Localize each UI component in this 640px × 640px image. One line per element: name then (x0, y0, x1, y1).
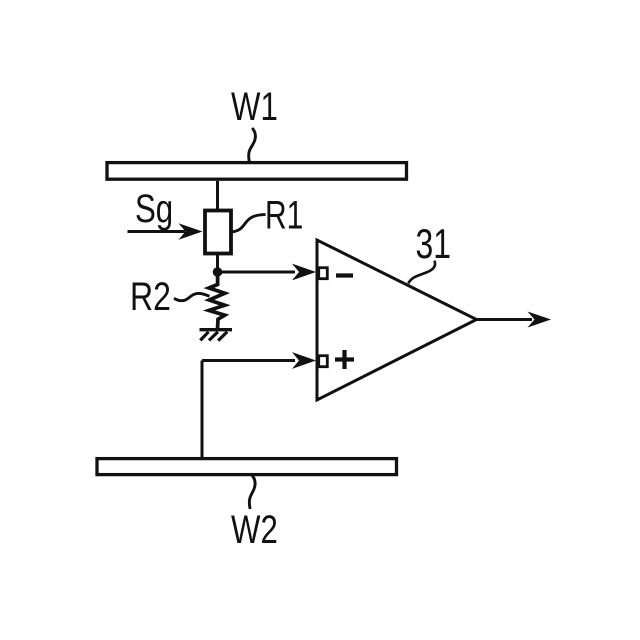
electrode W2 (bottom plate) (97, 459, 397, 475)
minus sign (336, 273, 353, 277)
arrowhead at inverting input (292, 264, 316, 281)
leader squiggle from W2 plate to label (249, 476, 255, 510)
node (junction dot) (213, 267, 223, 277)
label W2 (231, 507, 278, 552)
Sg input wire (128, 230, 186, 233)
svg-text:31: 31 (416, 220, 452, 267)
svg-text:Sg: Sg (135, 186, 173, 231)
svg-text:R2: R2 (130, 274, 171, 319)
label R1 (265, 193, 303, 237)
svg-text:R1: R1 (265, 193, 303, 237)
plus sign (335, 350, 354, 369)
arrowhead at non-inverting input (292, 352, 316, 369)
wire from W2 plate up (vertical) (201, 361, 204, 459)
label R2 (130, 274, 171, 319)
leader squiggle from R2 to zigzag (174, 293, 210, 300)
op-amp U (triangle) (317, 240, 477, 400)
resistor R1 (box) (205, 211, 231, 254)
label Sg (135, 186, 173, 231)
output wire (477, 318, 533, 321)
electrode W1 (top plate) (107, 163, 407, 180)
pin square inverting input (319, 268, 328, 279)
ground (200, 330, 233, 341)
wire to non-inverting input (horizontal) (202, 359, 295, 362)
wire from W1 plate down to R1 (216, 181, 219, 210)
wire from node to inverting input (218, 271, 296, 274)
wire from R1 down to node (216, 253, 219, 272)
leader squiggle from W1 to top electrode (249, 128, 256, 162)
pin square non-inverting input (319, 356, 328, 367)
label W1 (231, 84, 278, 129)
leader squiggle from R1 to box (232, 215, 266, 232)
Sg arrowhead (179, 223, 203, 239)
svg-text:W1: W1 (231, 84, 278, 129)
svg-text:W2: W2 (231, 507, 278, 552)
output arrowhead (528, 312, 552, 328)
label 31 (416, 220, 452, 267)
resistor R2 (zigzag) (209, 276, 225, 329)
leader squiggle from 31 to op-amp edge (408, 261, 435, 284)
